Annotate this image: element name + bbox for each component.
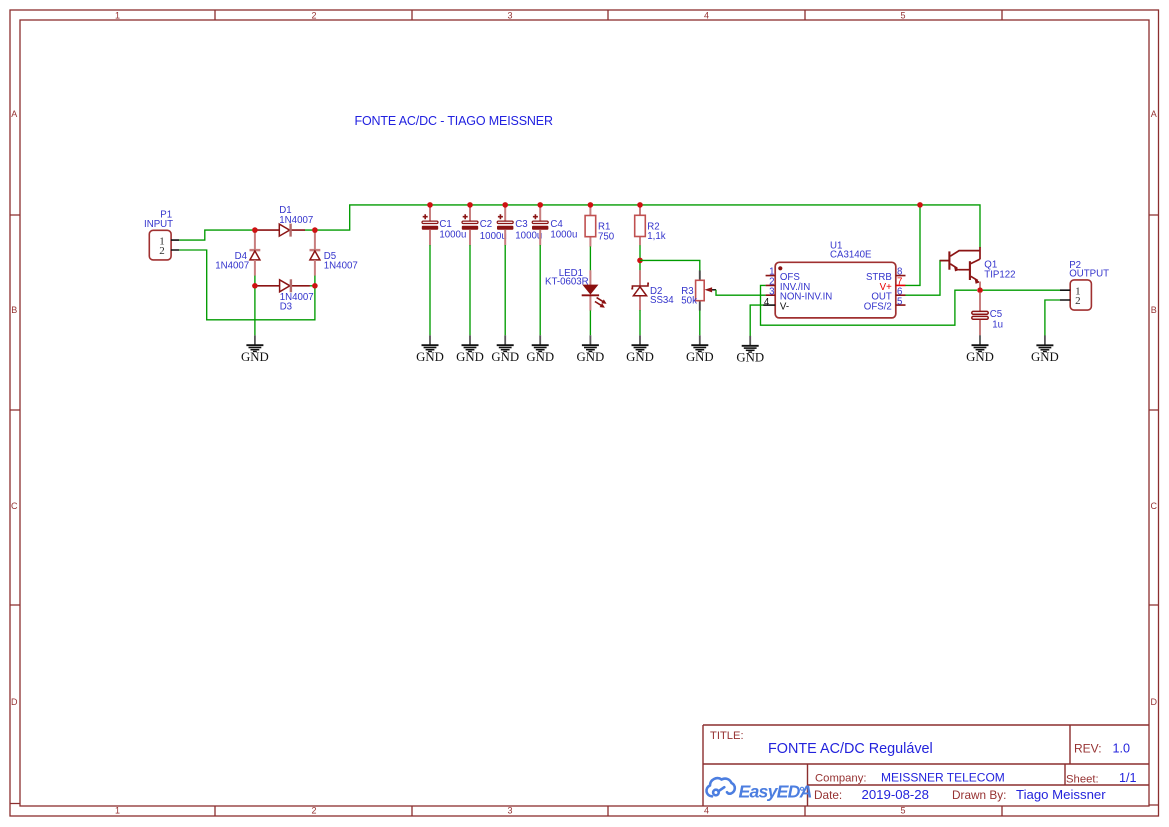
- svg-text:D3: D3: [280, 302, 292, 313]
- wire node E to R3 top: [640, 260, 700, 270]
- ground GND U1: [736, 336, 764, 365]
- junction rail dot C2: [467, 202, 473, 208]
- svg-text:OUTPUT: OUTPUT: [1069, 268, 1109, 279]
- wire D5 bottom to bridge node D: [314, 275, 316, 285]
- svg-text:A: A: [11, 109, 17, 119]
- svg-text:3: 3: [507, 10, 512, 20]
- svg-text:REV:: REV:: [1074, 742, 1102, 756]
- potentiometer R3 50k: [681, 271, 716, 311]
- wire R1 to LED1: [589, 246, 591, 270]
- svg-text:1N4007: 1N4007: [215, 260, 249, 271]
- wire C2 to GND: [469, 245, 471, 335]
- wire emitter node to C5: [979, 290, 981, 294]
- transistor Q1 TIP122: [940, 247, 1016, 288]
- ground GND LED1: [577, 335, 605, 364]
- svg-text:C3: C3: [515, 219, 527, 230]
- capacitor C2 1000u: [462, 206, 507, 246]
- wire bridge bottom right green bits: [310, 285, 315, 287]
- svg-text:2: 2: [311, 806, 316, 816]
- junction rail dot R1: [588, 202, 594, 208]
- wire LED1 to GND: [589, 310, 591, 335]
- ground GND C3: [491, 335, 519, 364]
- capacitor C1 1000u: [422, 206, 467, 246]
- junction node A dot: [252, 227, 258, 233]
- junction node D2 dot bottom right bridge: [312, 283, 318, 289]
- svg-text:1/1: 1/1: [1119, 771, 1137, 785]
- svg-text:Drawn By:: Drawn By:: [952, 788, 1006, 802]
- ground GND C5: [966, 335, 994, 364]
- wire C3 to GND: [504, 245, 506, 335]
- wire U1 pin4 to GND: [750, 305, 763, 336]
- svg-text:1000u: 1000u: [550, 229, 577, 240]
- capacitor C3 1000u: [497, 206, 542, 246]
- diode D4 1N4007: [215, 231, 260, 276]
- wire node E to D2: [639, 260, 641, 270]
- wire R3 wiper to U1 pin3: [716, 290, 766, 295]
- svg-text:MEISSNER TELECOM: MEISSNER TELECOM: [881, 770, 1005, 784]
- capacitor C4 1000u: [532, 206, 577, 246]
- junction rail dot C3: [502, 202, 508, 208]
- diode D5 1N4007: [310, 231, 358, 276]
- svg-text:D: D: [1151, 697, 1158, 707]
- junction node E dot: [637, 258, 643, 264]
- svg-text:SS34: SS34: [650, 295, 674, 306]
- junction rail dot R2: [637, 202, 643, 208]
- junction node rail V+ dot: [917, 202, 923, 208]
- wire R3 bottom to GND: [699, 310, 701, 335]
- connector P1: [144, 209, 179, 260]
- ground GND C2: [456, 335, 484, 364]
- wire bridge node A to D4 top: [254, 230, 256, 232]
- svg-text:750: 750: [598, 231, 615, 242]
- svg-text:2019-08-28: 2019-08-28: [862, 787, 929, 802]
- svg-text:C: C: [11, 501, 18, 511]
- svg-text:EasyEDA: EasyEDA: [739, 782, 812, 802]
- svg-text:1: 1: [115, 806, 120, 816]
- wire U1 pin7 V+ to top rail: [905, 206, 920, 286]
- svg-text:4: 4: [764, 297, 770, 308]
- svg-text:1.0: 1.0: [1113, 742, 1131, 756]
- svg-text:FONTE AC/DC - TIAGO MEISSNER: FONTE AC/DC - TIAGO MEISSNER: [355, 114, 553, 128]
- wire C4 to GND: [539, 245, 541, 335]
- ground GND D2: [626, 335, 654, 364]
- EasyEDA logo: [706, 778, 811, 801]
- junction node C dot: [252, 283, 258, 289]
- svg-text:5: 5: [900, 10, 905, 20]
- LED LED1 KT-0603R: [545, 268, 606, 310]
- wire R2 to node E: [639, 245, 641, 260]
- svg-text:Sheet:: Sheet:: [1066, 773, 1099, 785]
- junction node emitter dot: [977, 287, 983, 293]
- svg-text:B: B: [1151, 305, 1157, 315]
- svg-text:5: 5: [897, 296, 902, 307]
- svg-text:50k: 50k: [681, 295, 697, 306]
- wire feedback U1 pin2 to emitter node: [761, 285, 978, 325]
- svg-text:1N4007: 1N4007: [279, 215, 313, 226]
- svg-text:D: D: [11, 697, 18, 707]
- title block: [703, 725, 1149, 806]
- svg-text:1u: 1u: [992, 320, 1003, 331]
- junction rail dot C4: [537, 202, 543, 208]
- svg-text:1000u: 1000u: [439, 229, 466, 240]
- svg-text:4: 4: [704, 806, 709, 816]
- svg-text:2: 2: [159, 245, 165, 257]
- svg-text:Date:: Date:: [814, 788, 842, 802]
- svg-text:1: 1: [115, 10, 120, 20]
- svg-text:V-: V-: [780, 302, 789, 313]
- svg-text:TIP122: TIP122: [984, 270, 1015, 281]
- svg-text:Company:: Company:: [815, 772, 867, 784]
- junction rail dot C1: [427, 202, 433, 208]
- wire P2 pin2 to GND: [1045, 300, 1060, 336]
- svg-text:Tiago Meissner: Tiago Meissner: [1016, 787, 1106, 802]
- ground GND C4: [526, 335, 554, 364]
- diode D1 1N4007: [257, 205, 314, 236]
- wire C1 to GND: [429, 245, 431, 335]
- op-amp U1 CA3140E: [763, 241, 905, 318]
- connector P2: [1060, 260, 1109, 310]
- svg-text:2: 2: [311, 10, 316, 20]
- wire P1 pin2 to bridge node B: [179, 250, 315, 320]
- svg-text:4: 4: [704, 10, 709, 20]
- svg-text:1000u: 1000u: [515, 230, 542, 241]
- junction node D dot: [312, 227, 318, 233]
- schottky diode D2 SS34: [631, 270, 674, 310]
- capacitor C5 1u: [972, 293, 1003, 336]
- wire P1 pin1 to bridge node A: [179, 230, 256, 240]
- svg-text:C2: C2: [480, 219, 492, 230]
- ground GND R3: [686, 335, 714, 364]
- ground GND bridge: [241, 335, 269, 364]
- svg-text:3: 3: [769, 286, 774, 297]
- svg-text:5: 5: [900, 806, 905, 816]
- svg-text:OFS/2: OFS/2: [864, 302, 892, 313]
- svg-text:INPUT: INPUT: [144, 219, 173, 230]
- svg-text:2: 2: [1075, 295, 1081, 307]
- wire bridge node D to top rail: [305, 205, 981, 248]
- svg-text:3: 3: [507, 806, 512, 816]
- wire D4 bottom to bridge node C and GND: [254, 275, 256, 335]
- ground GND C1: [416, 335, 444, 364]
- svg-text:FONTE AC/DC Regulável: FONTE AC/DC Regulável: [768, 741, 933, 757]
- svg-text:B: B: [11, 305, 17, 315]
- diode D3 1N4007: [257, 279, 314, 312]
- wire D2 to GND: [639, 310, 641, 335]
- svg-text:1,1k: 1,1k: [647, 231, 665, 242]
- wire emitter node to P2 pin1: [980, 289, 1060, 291]
- svg-text:1000u: 1000u: [480, 231, 507, 242]
- ground GND P2: [1031, 335, 1059, 364]
- svg-text:C5: C5: [990, 309, 1002, 320]
- svg-text:A: A: [1151, 109, 1157, 119]
- resistor R2 1,1k: [635, 206, 666, 246]
- resistor R1 750: [585, 206, 615, 247]
- svg-text:CA3140E: CA3140E: [830, 250, 872, 261]
- svg-text:TITLE:: TITLE:: [710, 730, 744, 742]
- svg-text:KT-0603R: KT-0603R: [545, 277, 589, 288]
- svg-text:1N4007: 1N4007: [324, 260, 358, 271]
- svg-text:C: C: [1151, 501, 1158, 511]
- wire U1 pin6 OUT to Q1 base: [905, 261, 949, 296]
